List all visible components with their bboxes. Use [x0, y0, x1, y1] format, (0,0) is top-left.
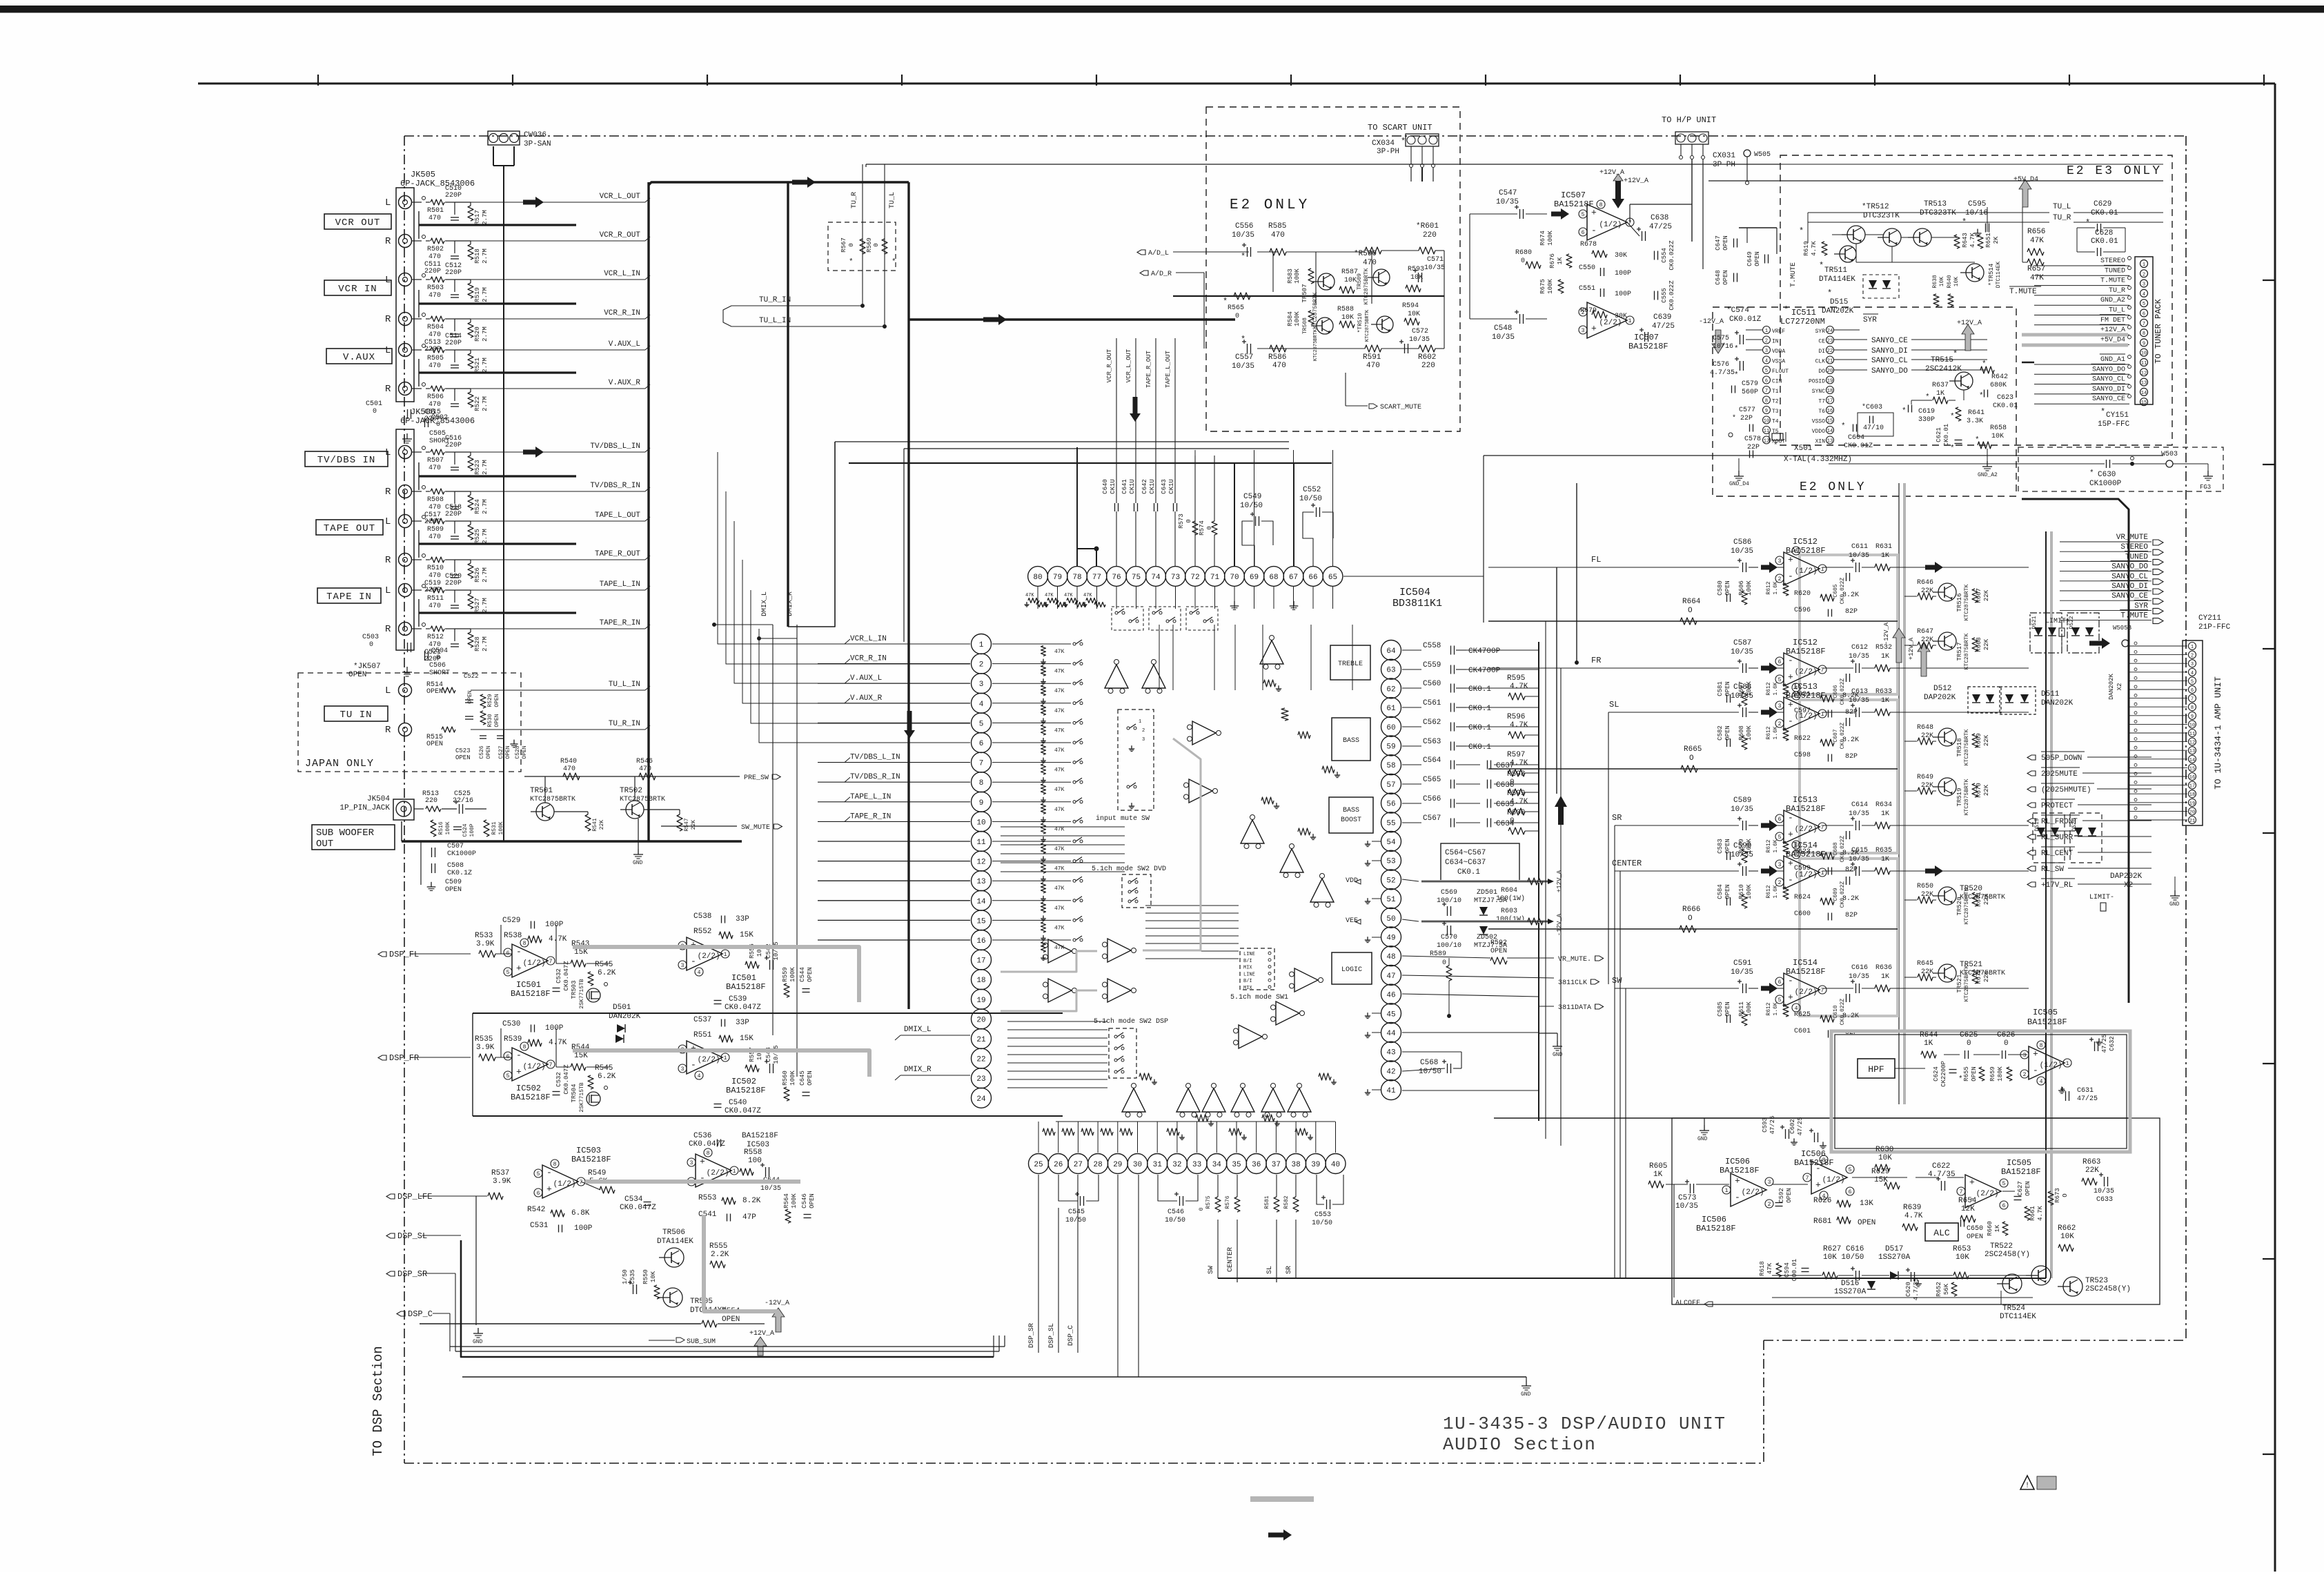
- svg-text:10: 10: [1764, 419, 1769, 424]
- svg-text:E2 ONLY: E2 ONLY: [1230, 197, 1310, 213]
- svg-text:2.7M: 2.7M: [482, 460, 489, 475]
- capacitor C567: [1402, 822, 1421, 823]
- svg-text:C548: C548: [1494, 324, 1512, 333]
- svg-text:R640: R640: [1947, 275, 1953, 288]
- svg-text:V.AUX_L: V.AUX_L: [850, 674, 882, 683]
- svg-text:DSP_SR: DSP_SR: [397, 1269, 427, 1279]
- svg-text:C538: C538: [693, 912, 711, 921]
- svg-text:100P: 100P: [1615, 270, 1631, 277]
- svg-text:R588: R588: [1337, 306, 1354, 313]
- svg-text:15K: 15K: [574, 948, 588, 957]
- svg-text:3: 3: [2023, 1053, 2027, 1059]
- svg-text:R603: R603: [1501, 908, 1517, 915]
- svg-text:10: 10: [2141, 351, 2147, 357]
- resistor 47K pullup: [1041, 725, 1046, 735]
- svg-text:KTC2875BRTK: KTC2875BRTK: [1964, 633, 1970, 669]
- svg-text:TU IN: TU IN: [339, 710, 372, 721]
- svg-text:2SC2458(Y): 2SC2458(Y): [1985, 1251, 2030, 1259]
- svg-text:*: *: [849, 258, 854, 266]
- svg-text:47K: 47K: [1045, 593, 1054, 598]
- svg-text:2.7M: 2.7M: [482, 210, 489, 225]
- svg-text:*: *: [1827, 288, 1832, 298]
- capacitor C559: [1402, 669, 1421, 670]
- svg-text:T5: T5: [1772, 429, 1779, 435]
- transistor TR521: [1938, 964, 1956, 982]
- svg-text:1K: 1K: [1557, 257, 1564, 264]
- wire CY211 pin 2: [2129, 654, 2187, 656]
- wire SW_MUTE: [661, 825, 737, 827]
- svg-text:TO 1U-3434-1 AMP UNIT: TO 1U-3434-1 AMP UNIT: [2213, 676, 2223, 790]
- svg-text:OPEN: OPEN: [1490, 948, 1507, 955]
- svg-text:C540: C540: [729, 1099, 747, 1107]
- resistor R591: [1365, 345, 1381, 352]
- svg-text:FG3: FG3: [2200, 484, 2211, 491]
- svg-text:3.9K: 3.9K: [493, 1177, 511, 1186]
- svg-text:T1: T1: [1772, 389, 1779, 395]
- svg-text:IC506: IC506: [1702, 1215, 1726, 1224]
- svg-text:OPEN: OPEN: [1786, 1188, 1793, 1203]
- svg-text:47K: 47K: [1054, 787, 1065, 793]
- resistor R664 rail: [1488, 620, 1898, 622]
- svg-text:(2/2): (2/2): [698, 952, 720, 961]
- svg-text:82P: 82P: [1845, 753, 1858, 761]
- crystal X501: [1772, 433, 1783, 440]
- transistor TR519: [1938, 778, 1956, 796]
- svg-text:C621: C621: [1936, 427, 1942, 442]
- svg-text:C532: C532: [555, 1072, 562, 1087]
- svg-text:3: 3: [1778, 558, 1782, 565]
- svg-text:1.6K: 1.6K: [1773, 839, 1779, 852]
- svg-text:470: 470: [1363, 259, 1377, 267]
- svg-text:BA15218F: BA15218F: [511, 989, 551, 999]
- svg-text:C642: C642: [1141, 479, 1148, 494]
- svg-text:4.7K: 4.7K: [549, 935, 567, 943]
- svg-text:8: 8: [1795, 549, 1798, 555]
- svg-text:TR515: TR515: [1931, 356, 1953, 364]
- svg-text:17: 17: [1827, 399, 1833, 404]
- svg-text:C578: C578: [1744, 436, 1761, 443]
- svg-text:CK0.1Z: CK0.1Z: [447, 870, 472, 877]
- wire bus join: [419, 371, 576, 373]
- svg-text:DMIX_R: DMIX_R: [904, 1066, 932, 1074]
- wire CENTER: [1615, 870, 1739, 872]
- svg-text:+: +: [516, 963, 522, 973]
- svg-text:VDDO: VDDO: [1812, 429, 1825, 435]
- svg-text:GND_A2: GND_A2: [1978, 472, 1998, 478]
- svg-text:DAP202K: DAP202K: [2110, 872, 2143, 881]
- svg-text:LIMIT-: LIMIT-: [2089, 894, 2114, 901]
- svg-text:TU_L_IN: TU_L_IN: [759, 317, 791, 325]
- svg-text:R565: R565: [1228, 304, 1244, 312]
- svg-text:C611: C611: [1851, 543, 1868, 551]
- svg-text:10/35: 10/35: [1731, 648, 1753, 656]
- svg-text:TU_R: TU_R: [2053, 214, 2071, 222]
- svg-text:R663: R663: [2082, 1158, 2100, 1166]
- wire dsp rail 1: [473, 1012, 1063, 1014]
- svg-text:C507: C507: [447, 843, 464, 850]
- svg-text:R612: R612: [1766, 885, 1772, 898]
- svg-text:VCR_R_OUT: VCR_R_OUT: [600, 231, 641, 239]
- svg-text:C627: C627: [2017, 1181, 2024, 1196]
- svg-text:C609: C609: [1833, 888, 1839, 901]
- svg-text:10K: 10K: [1939, 277, 1945, 287]
- svg-text:4: 4: [698, 970, 701, 976]
- svg-text:VR_MUTE.: VR_MUTE.: [1558, 956, 1591, 963]
- svg-text:*: *: [1241, 252, 1245, 262]
- svg-text:10/16: 10/16: [1713, 342, 1733, 351]
- svg-text:VCR_L_OUT: VCR_L_OUT: [1125, 349, 1132, 382]
- svg-text:10/50: 10/50: [1165, 1216, 1185, 1224]
- IC504 right pins 64-41: [1381, 640, 1401, 661]
- wire channel risers: [1614, 825, 1615, 1278]
- svg-text:TV/DBS_R_IN: TV/DBS_R_IN: [850, 773, 900, 781]
- wire +17V_RL: [2027, 882, 2036, 887]
- svg-text:C585: C585: [1717, 1001, 1724, 1017]
- svg-text:9: 9: [2191, 714, 2194, 720]
- svg-text:4.7K: 4.7K: [1510, 683, 1528, 691]
- wire hp line: [1708, 180, 2163, 182]
- svg-text:TO SCART UNIT: TO SCART UNIT: [1368, 123, 1432, 133]
- svg-text:10/50: 10/50: [1240, 502, 1263, 510]
- svg-text:R520: R520: [474, 326, 481, 342]
- wire IC504 pin 11: [818, 841, 970, 842]
- svg-text:IC512: IC512: [1793, 638, 1818, 647]
- svg-text:OPEN: OPEN: [455, 754, 471, 761]
- svg-text:R527: R527: [474, 598, 481, 613]
- svg-text:CK0.022Z: CK0.022Z: [1840, 836, 1846, 863]
- svg-text:*TR512: *TR512: [1862, 203, 1889, 211]
- wire bus vertical 2: [787, 182, 789, 627]
- svg-text:R508: R508: [427, 496, 444, 504]
- svg-text:0: 0: [1235, 313, 1239, 320]
- svg-text:16: 16: [976, 937, 985, 946]
- opamp bottom row: [1122, 1084, 1145, 1117]
- svg-text:DAN202K: DAN202K: [2041, 699, 2074, 707]
- svg-text:3.3K: 3.3K: [1967, 418, 1983, 425]
- svg-text:CK0.022Z: CK0.022Z: [1840, 578, 1846, 605]
- svg-text:-12V_A: -12V_A: [1556, 913, 1563, 936]
- svg-text:*R601: *R601: [1416, 222, 1439, 231]
- svg-text:OPEN: OPEN: [505, 745, 511, 759]
- wire bus vertical 3: [907, 182, 909, 1009]
- svg-text:1.6K: 1.6K: [1773, 682, 1779, 695]
- svg-text:R591: R591: [1363, 353, 1381, 362]
- wire 505P_DOWN: [2027, 755, 2036, 760]
- section rect IC505: [1672, 1118, 2160, 1304]
- svg-text:470: 470: [429, 401, 441, 409]
- wire crossbus 1: [835, 441, 1289, 442]
- svg-text:FL: FL: [1591, 555, 1601, 565]
- resistor R576: [1234, 1197, 1240, 1212]
- svg-text:C576: C576: [1713, 361, 1729, 369]
- wire SCART_MUTE: [1345, 373, 1346, 406]
- svg-text:(2/2): (2/2): [1976, 1190, 1999, 1198]
- svg-text:C566: C566: [1423, 795, 1441, 803]
- svg-text:R655: R655: [1963, 1066, 1970, 1082]
- svg-text:6: 6: [2002, 1203, 2006, 1209]
- svg-text:*C574: *C574: [1726, 306, 1749, 315]
- svg-text:LOGIC: LOGIC: [1341, 966, 1362, 974]
- svg-text:47K: 47K: [1054, 846, 1065, 852]
- wire sub woofer bus: [402, 840, 742, 842]
- capacitor C566: [1402, 803, 1421, 804]
- svg-text:SANYO_DI: SANYO_DI: [2092, 386, 2125, 393]
- svg-text:R664: R664: [1682, 598, 1701, 606]
- svg-text:4.7K: 4.7K: [2037, 1206, 2044, 1221]
- svg-text:49: 49: [1386, 935, 1395, 943]
- svg-text:(2/2): (2/2): [1599, 319, 1622, 327]
- svg-text:3: 3: [681, 963, 685, 969]
- svg-text:C581: C581: [1717, 681, 1724, 696]
- wire TV/DBS_R_IN: [471, 491, 645, 492]
- svg-text:R530: R530: [487, 714, 493, 727]
- svg-text:R596: R596: [1507, 713, 1525, 721]
- dash-dot board outline: [404, 135, 2186, 137]
- svg-text:R622: R622: [1794, 735, 1811, 743]
- footer arrow: [1268, 1529, 1292, 1540]
- svg-text:7: 7: [549, 959, 553, 965]
- svg-text:5: 5: [1849, 1167, 1852, 1173]
- wires IC511 right: [1963, 390, 1964, 400]
- svg-text:14: 14: [976, 898, 986, 906]
- svg-text:R648: R648: [1917, 724, 1933, 732]
- svg-text:41: 41: [1386, 1087, 1396, 1095]
- svg-text:CENTER: CENTER: [1227, 1247, 1234, 1272]
- svg-text:R634: R634: [1875, 801, 1892, 809]
- wire IC504 pin 7: [818, 762, 970, 763]
- ground stub: [1372, 1089, 1381, 1090]
- wire RL_CENT: [2027, 850, 2036, 855]
- svg-text:15K: 15K: [740, 1035, 754, 1043]
- svg-text:IC514: IC514: [1793, 841, 1818, 850]
- svg-text:6: 6: [979, 740, 984, 748]
- svg-text:SANYO_CL: SANYO_CL: [2111, 573, 2148, 581]
- svg-text:R521: R521: [474, 358, 481, 373]
- svg-text:+: +: [516, 1066, 522, 1077]
- svg-text:4: 4: [2040, 1079, 2043, 1085]
- svg-text:*TR510: *TR510: [1357, 313, 1363, 333]
- svg-text:SANYO_DO: SANYO_DO: [2111, 563, 2148, 571]
- svg-text:DSP_SL: DSP_SL: [1048, 1323, 1056, 1348]
- svg-text:(1/2): (1/2): [523, 1063, 546, 1071]
- opamp IC505 A: [2029, 1046, 2065, 1079]
- svg-text:220P: 220P: [445, 580, 462, 587]
- svg-text:2: 2: [979, 661, 984, 669]
- svg-text:DTC114EK: DTC114EK: [1996, 262, 2002, 288]
- svg-text:R602: R602: [1418, 353, 1436, 362]
- svg-text:IC502: IC502: [731, 1077, 756, 1086]
- wire 2025MUTE: [2027, 771, 2036, 776]
- wire bus join: [419, 542, 576, 545]
- svg-text:180K: 180K: [1997, 1066, 2004, 1082]
- svg-text:D515: D515: [1830, 298, 1848, 306]
- capacitor C561: [1402, 707, 1421, 708]
- transistor TR517: [1938, 632, 1956, 650]
- svg-text:12: 12: [1764, 439, 1769, 444]
- svg-text:TR511: TR511: [1824, 266, 1847, 275]
- svg-text:R647: R647: [1917, 628, 1933, 636]
- svg-text:CY151: CY151: [2106, 411, 2129, 420]
- svg-text:KTC2875BRTK: KTC2875BRTK: [1964, 584, 1970, 620]
- svg-text:R549: R549: [588, 1169, 606, 1177]
- svg-text:VREF: VREF: [1772, 329, 1785, 335]
- svg-text:10/35: 10/35: [773, 1045, 780, 1064]
- svg-text:8.2K: 8.2K: [742, 1197, 761, 1205]
- svg-text:C536: C536: [693, 1132, 711, 1140]
- wire gnd_a1 thick: [2022, 362, 2034, 364]
- svg-text:STEREO: STEREO: [2120, 543, 2148, 551]
- svg-text:22K: 22K: [1983, 638, 1990, 650]
- svg-text:10/35: 10/35: [1849, 855, 1869, 863]
- svg-text:100K: 100K: [1746, 580, 1753, 596]
- svg-text:D512: D512: [1933, 685, 1951, 693]
- svg-text:DSP_C: DSP_C: [408, 1309, 433, 1319]
- svg-text:1K: 1K: [1881, 552, 1889, 560]
- svg-text:2.7M: 2.7M: [482, 396, 489, 411]
- svg-text:4.7/35: 4.7/35: [1710, 369, 1735, 377]
- svg-text:DSP_C: DSP_C: [1067, 1325, 1075, 1346]
- svg-text:2.7M: 2.7M: [482, 326, 489, 342]
- svg-text:C534: C534: [624, 1195, 643, 1204]
- svg-text:0: 0: [1510, 779, 1515, 787]
- svg-text:+12V_A: +12V_A: [1556, 870, 1563, 892]
- wire pin65 to right: [1343, 576, 1484, 577]
- svg-text:(1/2): (1/2): [1795, 712, 1818, 721]
- svg-text:*: *: [1958, 1075, 1963, 1084]
- IC U507 opamp B: [1587, 302, 1627, 338]
- svg-text:C508: C508: [447, 862, 464, 870]
- svg-text:13: 13: [2141, 381, 2147, 387]
- wire TU_L_IN: [471, 689, 645, 691]
- svg-text:SUB_SUM: SUB_SUM: [687, 1338, 716, 1346]
- svg-text:R633: R633: [1875, 688, 1892, 696]
- label V.AUX: [326, 349, 392, 364]
- svg-text:2: 2: [1768, 1202, 1771, 1208]
- svg-text:1K: 1K: [1936, 390, 1944, 398]
- svg-text:STEREO: STEREO: [2100, 257, 2125, 265]
- svg-text:4.7K: 4.7K: [1510, 798, 1528, 806]
- svg-text:1K: 1K: [1881, 973, 1889, 981]
- svg-text:5: 5: [2191, 679, 2194, 685]
- gray box IC514 pair: [1800, 859, 1898, 1016]
- svg-text:220: 220: [425, 797, 437, 805]
- svg-text:R555: R555: [709, 1242, 727, 1251]
- svg-text:R567: R567: [840, 237, 847, 253]
- svg-text:LIMIT+: LIMIT+: [2045, 618, 2070, 625]
- diode D519 D520: [2033, 813, 2065, 863]
- svg-text:47/25: 47/25: [2077, 1095, 2098, 1103]
- wire bus join: [419, 302, 576, 304]
- svg-text:C608: C608: [1833, 842, 1839, 855]
- wire FL: [1488, 567, 1739, 568]
- svg-text:CK1U: CK1U: [1110, 479, 1116, 494]
- svg-text:+: +: [1788, 672, 1793, 682]
- svg-text:2: 2: [2023, 1072, 2027, 1078]
- svg-text:22K: 22K: [1921, 587, 1933, 595]
- svg-text:100P: 100P: [545, 1024, 564, 1033]
- top border line: [198, 83, 2275, 85]
- svg-text:47K: 47K: [1054, 688, 1065, 694]
- svg-text:R574: R574: [1199, 520, 1205, 536]
- wire DMIX_L vertical: [772, 625, 774, 1035]
- svg-text:R612: R612: [1766, 1002, 1772, 1015]
- svg-text:-: -: [1591, 226, 1597, 236]
- svg-text:VCR_R_OUT: VCR_R_OUT: [1106, 349, 1113, 382]
- svg-text:8: 8: [1599, 202, 1603, 208]
- wire TU_R_IN: [471, 729, 645, 730]
- svg-text:OPEN: OPEN: [1724, 725, 1731, 741]
- svg-text:74: 74: [1151, 574, 1161, 582]
- wire DSP_C: [397, 1311, 405, 1316]
- svg-text:-: -: [516, 946, 522, 957]
- svg-text:R: R: [385, 236, 391, 247]
- svg-text:10K 10/50: 10K 10/50: [1823, 1253, 1864, 1262]
- ground FG3: [2173, 463, 2208, 464]
- svg-text:0: 0: [1510, 817, 1515, 825]
- svg-text:SANYO_CL: SANYO_CL: [2092, 376, 2125, 384]
- svg-text:R661: R661: [2029, 1206, 2036, 1221]
- svg-text:C616: C616: [1851, 964, 1868, 972]
- svg-text:TO TUNER PACK: TO TUNER PACK: [2154, 298, 2163, 363]
- svg-text:100P: 100P: [469, 823, 475, 837]
- svg-text:47K: 47K: [1766, 1262, 1773, 1274]
- svg-text:DSP_FR: DSP_FR: [389, 1053, 419, 1063]
- IC504 top pins 80-65: [1028, 567, 1048, 587]
- svg-text:C531: C531: [530, 1222, 549, 1230]
- opamp IC502 B: [687, 1041, 722, 1074]
- svg-text:C647: C647: [1715, 235, 1722, 251]
- svg-text:R546: R546: [636, 758, 653, 765]
- svg-text:100P: 100P: [574, 1224, 593, 1233]
- svg-text:B/I: B/I: [1243, 959, 1252, 964]
- svg-text:82P: 82P: [1845, 608, 1858, 616]
- svg-text:C524: C524: [462, 823, 469, 837]
- svg-text:24: 24: [976, 1095, 986, 1104]
- dashed box E2 ONLY scart: [1206, 107, 1460, 431]
- svg-text:1SS270A: 1SS270A: [1878, 1253, 1911, 1262]
- wire SR down: [1295, 1220, 1297, 1278]
- ground stub: [1372, 860, 1381, 861]
- wire TAPE_L_OUT vertical: [1174, 338, 1176, 456]
- svg-text:C606: C606: [1833, 685, 1839, 698]
- svg-text:C551: C551: [1579, 285, 1595, 293]
- svg-text:BA15218F: BA15218F: [726, 1086, 766, 1095]
- wire CY211 pin 9: [2129, 715, 2187, 716]
- svg-text:TR501: TR501: [530, 787, 553, 795]
- svg-text:4.7K: 4.7K: [549, 1039, 567, 1047]
- svg-text:100K: 100K: [789, 1070, 796, 1086]
- svg-text:R533: R533: [475, 932, 493, 940]
- svg-text:TAPE_R_IN: TAPE_R_IN: [600, 619, 640, 627]
- svg-text:B/I: B/I: [1243, 979, 1252, 984]
- svg-text:R559: R559: [782, 967, 789, 982]
- svg-text:*: *: [1784, 305, 1789, 315]
- svg-text:L: L: [385, 447, 391, 458]
- svg-text:L: L: [385, 685, 391, 696]
- wire CENTER down: [1237, 1220, 1238, 1278]
- svg-text:-: -: [1788, 571, 1793, 581]
- svg-text:10/35: 10/35: [1731, 968, 1753, 977]
- svg-text:R545: R545: [595, 961, 613, 969]
- svg-text:560P: 560P: [1742, 389, 1758, 396]
- wire CY211 pin 17: [2129, 785, 2187, 786]
- svg-text:TR506: TR506: [662, 1229, 685, 1237]
- label TU IN: [324, 706, 388, 721]
- diode D511 DAN202K: [2000, 687, 2036, 714]
- svg-text:6: 6: [1778, 816, 1782, 823]
- svg-text:22: 22: [1827, 349, 1833, 354]
- resistor 47K pullup: [1041, 843, 1046, 854]
